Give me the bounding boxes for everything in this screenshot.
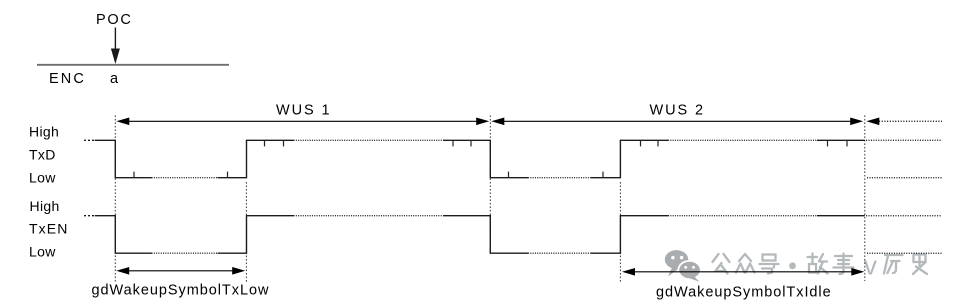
TxD continuation dotted high <box>866 139 942 141</box>
svg-text:gdWakeupSymbolTxLow: gdWakeupSymbolTxLow <box>92 283 270 299</box>
svg-text:High: High <box>30 198 60 214</box>
svg-text:a: a <box>110 71 119 87</box>
svg-text:POC: POC <box>96 12 133 28</box>
WUS 3 continuation arrow <box>866 118 942 126</box>
WUS 1 dimension arrow <box>116 118 489 126</box>
WUS 2 dimension arrow <box>491 118 863 126</box>
TxD continuation dotted low <box>867 177 943 179</box>
watermark icon <box>665 250 702 282</box>
dashed boundary x=490 <box>489 115 491 253</box>
ENC timeline wire <box>37 64 229 66</box>
svg-text:v: v <box>864 251 878 281</box>
dashed boundary x=246 <box>245 182 247 283</box>
TxEN continuation dotted high <box>866 215 942 217</box>
svg-text:Low: Low <box>29 244 56 260</box>
svg-text:TxEN: TxEN <box>29 221 68 237</box>
gdWakeupSymbolTxLow dimension arrow <box>116 267 245 275</box>
TxEN leading continuation dots <box>84 215 95 217</box>
TxD waveform dotted middle segments <box>152 140 818 177</box>
svg-text:High: High <box>29 124 59 140</box>
svg-text:Low: Low <box>29 170 56 186</box>
svg-text:WUS 1: WUS 1 <box>276 102 331 118</box>
svg-text:WUS 2: WUS 2 <box>650 102 705 118</box>
dashed boundary x=865 <box>864 115 866 281</box>
watermark text <box>713 254 928 275</box>
TxD bit ticks <box>134 140 847 177</box>
gdWakeupSymbolTxIdle dimension arrow <box>622 268 864 276</box>
TxD waveform solid segments <box>95 140 865 177</box>
watermark middle dot <box>789 262 796 269</box>
svg-text:TxD: TxD <box>29 147 56 163</box>
TxD leading continuation dots <box>84 139 95 141</box>
dashed boundary x=115 <box>114 115 116 283</box>
POC event arrow <box>111 28 120 65</box>
TxEN waveform solid segments <box>95 216 865 254</box>
svg-text:ENC: ENC <box>49 71 86 87</box>
TxEN continuation dotted low <box>867 252 943 254</box>
svg-text:gdWakeupSymbolTxIdle: gdWakeupSymbolTxIdle <box>656 285 832 301</box>
dashed boundary x=620 <box>619 182 621 283</box>
TxEN waveform dotted middle segments <box>152 216 818 254</box>
